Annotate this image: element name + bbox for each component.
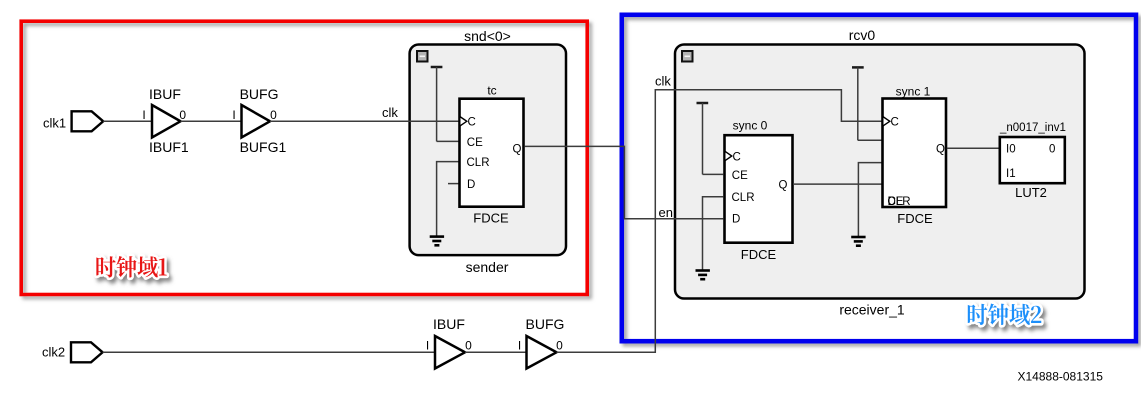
clock marker tc C [460, 117, 467, 127]
svg-text:BUFG: BUFG [240, 86, 279, 102]
wire stub to sync1 CE [858, 139, 882, 141]
caption 时钟域2 (clock domain 2) [968, 304, 1041, 326]
wire tc CLR to ground [437, 162, 459, 236]
wire sync0 CLR to ground [703, 197, 724, 270]
wire sync0 Q to sync1 D [793, 183, 882, 185]
wire sync1 CLR to ground [858, 163, 882, 237]
svg-text:D: D [467, 179, 475, 191]
ground (sync0 CLR) [696, 271, 710, 280]
wire IBUF to BUFG (clk2 path) [465, 351, 527, 353]
svg-text:BUFG: BUFG [526, 316, 565, 332]
svg-text:Q: Q [513, 143, 522, 155]
svg-text:C: C [891, 117, 899, 129]
wire clk net BUFG1 to tc C [270, 120, 459, 122]
svg-text:clk: clk [655, 74, 671, 89]
wire clk2 to IBUF [103, 351, 435, 353]
svg-text:receiver_1: receiver_1 [839, 302, 905, 318]
collapse icon (rcv0 block) [682, 51, 693, 62]
input pin clk1 [72, 111, 104, 131]
svg-text:I: I [142, 108, 145, 122]
svg-text:CE: CE [467, 137, 483, 149]
svg-text:snd<0>: snd<0> [464, 28, 511, 44]
hierarchical block rcv0 container [675, 45, 1085, 299]
svg-text:rcv0: rcv0 [849, 27, 876, 43]
svg-text:en: en [659, 205, 673, 220]
svg-text:C: C [468, 117, 476, 129]
hierarchical block snd<0> container [410, 45, 566, 256]
svg-text:CLR: CLR [732, 192, 755, 204]
wire clk1 to IBUF1 [103, 120, 152, 122]
svg-text:CLR: CLR [888, 196, 911, 208]
gate LUT2 _n0017_inv1 [1000, 137, 1065, 183]
svg-text:clk1: clk1 [43, 115, 66, 130]
wire stub to sync0 CE [703, 173, 724, 175]
tie-high stub for sync1 CE [852, 67, 864, 140]
svg-text:FDCE: FDCE [473, 211, 509, 226]
wire stub to tc CE [437, 140, 459, 142]
flip-flop sync 1 (FDCE) [883, 99, 947, 208]
svg-text:tc: tc [487, 84, 496, 98]
svg-text:_n0017_inv1: _n0017_inv1 [999, 122, 1066, 134]
svg-text:Q: Q [779, 179, 788, 191]
buffer IBUF (clk2 path) [435, 336, 465, 369]
svg-text:I: I [232, 108, 235, 122]
wire tc D stub [448, 183, 459, 185]
collapse icon (snd block) [417, 51, 428, 62]
clock-domain-2 annotation box (blue) [622, 15, 1136, 341]
ground (sync1 CLR) [851, 237, 865, 246]
wire clk net to sync1 C [557, 90, 883, 353]
svg-text:X14888-081315: X14888-081315 [1018, 370, 1104, 384]
wire IBUF1 to BUFG1 [181, 120, 242, 122]
svg-text:IBUF: IBUF [433, 316, 465, 332]
svg-text:D: D [732, 214, 740, 226]
caption 时钟域1 (clock domain 1) [96, 256, 166, 278]
tie-high stub for sync0 CE [697, 103, 709, 174]
svg-text:0: 0 [270, 108, 277, 122]
svg-text:sync 1: sync 1 [896, 85, 931, 99]
flip-flop tc (FDCE) [460, 99, 524, 207]
svg-text:0: 0 [556, 339, 563, 353]
svg-text:I1: I1 [1006, 168, 1016, 180]
svg-text:BUFG1: BUFG1 [240, 139, 287, 155]
svg-text:Q: Q [936, 144, 945, 156]
clock marker sync1 C [883, 117, 890, 127]
tie-high stub for tc CE [431, 67, 443, 141]
svg-text:I0: I0 [1006, 144, 1016, 156]
clock marker sync0 C [725, 151, 732, 161]
svg-text:clk: clk [382, 105, 398, 120]
svg-text:sync 0: sync 0 [733, 119, 768, 133]
svg-text:IBUF1: IBUF1 [149, 139, 189, 155]
wire sync1 Q to LUT2 I0 [947, 147, 999, 149]
buffer IBUF1 [152, 105, 181, 138]
buffer BUFG (clk2 path) [527, 336, 557, 369]
flip-flop sync 0 (FDCE) [725, 135, 793, 243]
svg-text:FDCE: FDCE [741, 247, 777, 262]
svg-text:clk2: clk2 [42, 345, 65, 360]
svg-text:FDCE: FDCE [897, 211, 933, 226]
overlapped pin labels D CE CLR (sync1) [888, 196, 911, 208]
svg-text:0: 0 [465, 339, 472, 353]
svg-text:0: 0 [1049, 144, 1055, 156]
ground (tc CLR) [430, 237, 444, 246]
svg-text:I: I [426, 339, 429, 353]
svg-text:C: C [733, 151, 741, 163]
svg-text:CLR: CLR [467, 157, 490, 169]
svg-text:sender: sender [466, 259, 509, 275]
buffer BUFG1 [242, 105, 271, 138]
clock-domain-1 annotation box (red) [21, 21, 587, 294]
svg-text:CE: CE [732, 170, 748, 182]
input pin clk2 [71, 342, 103, 362]
svg-text:0: 0 [179, 108, 186, 122]
svg-text:IBUF: IBUF [149, 86, 181, 102]
svg-text:LUT2: LUT2 [1015, 185, 1047, 200]
svg-text:I: I [518, 339, 521, 353]
wire tc Q to en net (sync0 D) [525, 146, 724, 218]
